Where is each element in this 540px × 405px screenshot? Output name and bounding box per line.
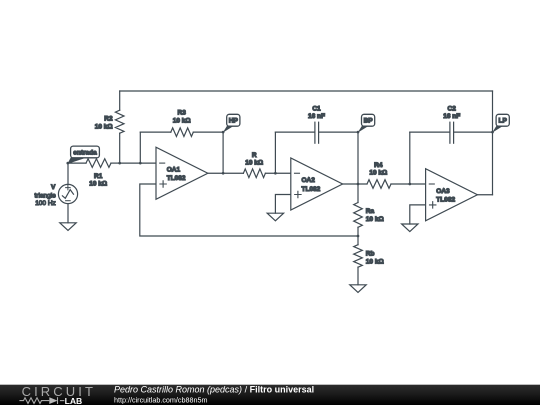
- voltage source V triangle 100 Hz: [34, 163, 77, 223]
- resistor R4 10 kΩ: [367, 162, 410, 188]
- svg-text:C1: C1: [312, 105, 321, 112]
- svg-text:16 nF: 16 nF: [443, 113, 460, 120]
- wire HP node vertical to OA1 output: [222, 132, 224, 173]
- resistor R1 10 kΩ: [68, 159, 120, 188]
- resistor R2 10 kΩ: [95, 91, 124, 163]
- wire C2 branch vertical: [409, 132, 411, 184]
- svg-text:V: V: [51, 184, 56, 191]
- wire OA2 noninverting to ground: [275, 195, 290, 214]
- capacitor C1 16 nF: [275, 105, 358, 143]
- svg-text:10 kΩ: 10 kΩ: [369, 170, 387, 177]
- resistor Ra 10 kΩ: [354, 184, 384, 236]
- svg-text:http://circuitlab.com/cb88n5m: http://circuitlab.com/cb88n5m: [114, 395, 207, 404]
- svg-text:R3: R3: [178, 110, 187, 117]
- op-amp OA2 TL082: [291, 158, 343, 210]
- svg-text:10 kΩ: 10 kΩ: [245, 159, 263, 166]
- svg-text:100 Hz: 100 Hz: [35, 200, 56, 207]
- junction LP node: [491, 131, 494, 134]
- svg-text:Ra: Ra: [366, 208, 375, 215]
- flag LP: [492, 114, 509, 132]
- svg-text:CIRCUIT: CIRCUIT: [22, 385, 96, 399]
- ground (OA3): [402, 224, 418, 232]
- junction Ra/Rb feedback node: [357, 235, 360, 238]
- wire top feedback (HP net to LP node): [120, 90, 493, 92]
- svg-text:10 kΩ: 10 kΩ: [366, 216, 384, 223]
- wire OA2 output: [343, 183, 367, 185]
- svg-text:C2: C2: [448, 105, 457, 112]
- resistor R 10 kΩ: [243, 152, 290, 178]
- capacitor C2 16 nF: [410, 105, 493, 143]
- wire right vertical LP net: [492, 91, 494, 195]
- svg-text:OA1: OA1: [167, 166, 181, 173]
- junction BP node: [357, 131, 360, 134]
- svg-text:R2: R2: [104, 116, 113, 123]
- wire C1 branch vertical: [274, 132, 276, 173]
- junction R1/R2 node: [118, 162, 121, 165]
- resistor Rb 10 kΩ: [354, 236, 384, 285]
- junction OA1 output node: [222, 172, 225, 175]
- op-amp OA1 TL082: [156, 147, 208, 199]
- flag BP: [358, 114, 375, 132]
- svg-text:TL082: TL082: [302, 186, 321, 193]
- svg-text:R1: R1: [94, 173, 103, 180]
- svg-text:Pedro Castrillo Romon (pedcas): Pedro Castrillo Romon (pedcas) / Filtro …: [114, 385, 314, 394]
- wire OA3 output to LP vertical: [477, 194, 492, 196]
- junction C1 branch node: [274, 172, 277, 175]
- svg-text:10 kΩ: 10 kΩ: [366, 259, 384, 266]
- svg-text:10 kΩ: 10 kΩ: [89, 180, 107, 187]
- junction R3 branch node: [139, 162, 142, 165]
- junction HP node: [222, 131, 225, 134]
- svg-text:LP: LP: [499, 118, 508, 125]
- wire R3 branch vertical: [139, 132, 141, 163]
- svg-text:entrada: entrada: [73, 149, 97, 156]
- wire input node to OA1 inverting input: [120, 162, 156, 164]
- svg-text:16 nF: 16 nF: [308, 113, 325, 120]
- CircuitLab logo: [19, 384, 96, 405]
- svg-text:Rb: Rb: [366, 251, 375, 258]
- ground (OA2): [267, 213, 283, 221]
- svg-text:OA3: OA3: [436, 188, 450, 195]
- svg-text:R: R: [252, 152, 257, 159]
- op-amp OA3 TL082: [426, 169, 478, 221]
- junction OA3 inverting node: [408, 183, 411, 186]
- svg-text:BP: BP: [364, 118, 374, 125]
- svg-text:OA2: OA2: [302, 177, 316, 184]
- wire OA3 noninverting to ground: [410, 205, 426, 224]
- flag entrada: [68, 146, 100, 164]
- footer bar: [0, 384, 540, 405]
- ground (below Rb): [350, 285, 366, 293]
- junction OA2 output node: [357, 183, 360, 186]
- resistor R3 10 kΩ: [140, 110, 223, 137]
- wire OA1 noninverting feedback: [140, 184, 358, 236]
- svg-text:LAB: LAB: [65, 396, 83, 405]
- wire BP node vertical to OA2 output: [357, 132, 359, 184]
- wire OA3 inverting input: [410, 183, 426, 185]
- svg-text:TL082: TL082: [436, 197, 455, 204]
- svg-text:triangle: triangle: [34, 193, 56, 200]
- flag HP: [223, 114, 240, 132]
- wire OA1 output: [208, 172, 244, 174]
- svg-text:10 kΩ: 10 kΩ: [173, 118, 191, 125]
- junction entrada node: [66, 162, 69, 165]
- ground (source): [60, 223, 76, 231]
- svg-text:10 kΩ: 10 kΩ: [95, 123, 113, 130]
- svg-text:R4: R4: [374, 162, 383, 169]
- svg-text:TL082: TL082: [167, 175, 186, 182]
- svg-text:HP: HP: [229, 118, 239, 125]
